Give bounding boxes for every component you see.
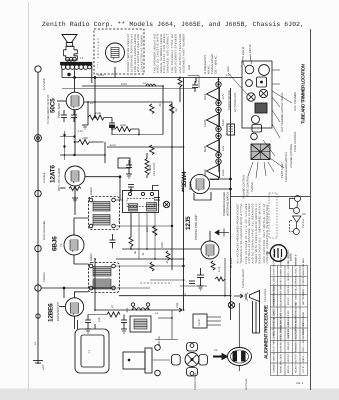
svg-text:FIG. 2: FIG. 2 (296, 382, 304, 385)
wire grid x64 bus (64, 131, 66, 160)
wire riser x139 (138, 213, 140, 260)
voice coil (66, 57, 77, 61)
output transformer T3 core (61, 62, 92, 65)
svg-text:PHONO: PHONO (43, 272, 46, 282)
phono jack box (227, 124, 235, 135)
svg-text:1 MEG: 1 MEG (149, 165, 152, 173)
lead GRN leader (228, 73, 247, 94)
trimmer leader lines (263, 70, 292, 168)
resistor R6 osc grid (107, 312, 120, 317)
ground G3 (85, 327, 91, 333)
svg-text:CONVERTER: CONVERTER (56, 301, 60, 321)
svg-text:VOLUME CONTROL: VOLUME CONTROL (290, 143, 293, 168)
output transformer location (255, 103, 267, 113)
oscillator coil L4 (131, 303, 149, 310)
tube 35W4 V5 rectifier (190, 174, 209, 193)
filament 6BJ6 (207, 133, 222, 157)
wire x172 bus (171, 102, 173, 270)
svg-text:2.1: 2.1 (90, 102, 94, 105)
resistor R16 (166, 251, 170, 260)
terminal E3 (35, 190, 41, 196)
socket 12BE6 location (252, 116, 260, 124)
resistor R15 cathode (69, 187, 81, 191)
pilot lamp location (251, 125, 262, 140)
wire 12J5 bottom row (119, 295, 231, 297)
35W4 socket loop (194, 192, 211, 200)
svg-text:0.17: 0.17 (226, 74, 231, 77)
svg-text:RADIO DIAL AT: RADIO DIAL AT (287, 314, 290, 339)
svg-text:PILOT LIGHT: PILOT LIGHT (281, 162, 284, 178)
wire 50C5 grid row (57, 101, 172, 102)
svg-text:.01: .01 (142, 252, 145, 256)
oscillator row (95, 308, 182, 312)
wire T2 secondary stub (115, 225, 173, 227)
wire IF agc row (116, 258, 184, 260)
page bottom edge (0, 389, 339, 400)
capacitor C16 line bypass (61, 110, 67, 122)
antenna ANT (33, 357, 43, 364)
capacitor C3 (126, 160, 132, 172)
speaker LS1 (62, 35, 77, 47)
terminal E5 (36, 314, 40, 318)
wire IF B+ row (122, 248, 201, 250)
capacitor C19 (110, 234, 116, 249)
wire T1 primary stub (115, 265, 184, 267)
svg-text:12J5: 12J5 (185, 216, 192, 230)
wire B+ corner stub (195, 78, 197, 83)
wire osc out (155, 310, 178, 340)
svg-text:TUBE AND TRIMMER LOCATION: TUBE AND TRIMMER LOCATION (301, 63, 306, 124)
wire 12AT6 grid stub (60, 187, 66, 189)
svg-text:455KC: 455KC (90, 187, 93, 195)
wire 6BJ6 plate riser (74, 218, 89, 235)
svg-text:I.F.: I.F. (59, 243, 63, 247)
cable to AC plug (213, 354, 228, 360)
tube 12J5 V6 phono preamp (201, 241, 219, 259)
left terminal labels (43, 78, 50, 282)
svg-text:B+ 105V: B+ 105V (230, 258, 233, 268)
tube 12AT6 V3 det-1st audio (65, 166, 85, 186)
svg-text:PHONO PRE-AMP: PHONO PRE-AMP (194, 214, 198, 240)
wire 50C5 plate to T3 (62, 69, 75, 92)
wire T2 primary stub (115, 199, 122, 201)
svg-text:BRN W: BRN W (249, 44, 252, 53)
wire 50C5 cathode (74, 110, 76, 155)
svg-text:535 — 1605 KC: 535 — 1605 KC (215, 55, 218, 74)
svg-text:12AT6: 12AT6 (204, 119, 207, 127)
svg-text:A7A BLK: A7A BLK (43, 172, 46, 183)
svg-text:6.3V: 6.3V (222, 145, 225, 151)
svg-text:VOL CONT: VOL CONT (153, 162, 156, 176)
lead color labels (227, 44, 252, 72)
svg-text:150K: 150K (95, 112, 101, 115)
resistor R14 (170, 104, 175, 113)
svg-text:GEN FREQUENCY KC: GEN FREQUENCY KC (280, 313, 283, 339)
svg-text:TUNING: TUNING (251, 182, 254, 192)
wire 35W4 plate row (210, 178, 232, 180)
svg-text:VOLUME CONTROL: VOLUME CONTROL (243, 174, 246, 199)
wire right top row (188, 75, 199, 88)
svg-text:GRN: GRN (227, 66, 230, 72)
wire 12AT6 plate feed (60, 136, 75, 138)
lead BLU leader (243, 56, 246, 68)
wire x183 bus (183, 78, 185, 311)
resistor R12 (178, 78, 182, 89)
svg-text:RECT.: RECT. (189, 181, 193, 190)
filter choke L6 (146, 84, 156, 86)
svg-text:NO-47: NO-47 (198, 318, 201, 326)
svg-text:P3: P3 (214, 349, 218, 352)
note phono leads (223, 192, 230, 216)
terminal E6 phono (35, 285, 41, 291)
trimmer A location (247, 93, 255, 101)
voltage labels (77, 74, 248, 390)
svg-text:CONVERTER GRID PIN 7 DUMMY LOO: CONVERTER GRID PIN 7 DUMMY LOOP ANT (280, 256, 283, 305)
wire riser x131 (130, 213, 132, 238)
tuning gang pictorial (245, 291, 260, 334)
resistor R9 12J5 grid (215, 277, 225, 281)
phono motor pictorial (123, 345, 170, 376)
svg-text:SET GANG FULLY OPEN ADJ OSC TR: SET GANG FULLY OPEN ADJ OSC TRIMMER B (295, 254, 298, 305)
ground G4 (121, 327, 127, 333)
junction dots row (64, 77, 232, 319)
svg-text:AC INTERLOCK: AC INTERLOCK (234, 93, 237, 112)
oscillator coil L5 box (130, 316, 151, 332)
svg-text:PHONO MOTOR: PHONO MOTOR (228, 90, 231, 110)
wire phono row y280 (150, 279, 184, 281)
capacitor C5 (121, 315, 127, 328)
trimmer B location (259, 89, 267, 97)
loop antenna L1 (75, 320, 109, 373)
junction dot (94, 77, 96, 79)
svg-text:PWR. AMP.: PWR. AMP. (57, 102, 61, 118)
svg-text:.05: .05 (166, 260, 169, 264)
wire x139 drop (138, 129, 140, 134)
coupling box (118, 158, 130, 168)
note text block: alternate tube (97, 34, 144, 72)
svg-text:TONE CONTROL: TONE CONTROL (294, 131, 297, 152)
resistor R13 (88, 115, 112, 120)
alignment table cell text (273, 246, 306, 373)
svg-text:12.6V: 12.6V (222, 119, 225, 126)
capacitor C7 (189, 281, 195, 284)
wire B+ bus x95 (94, 78, 96, 118)
wire rectifier feed column (230, 88, 232, 320)
capacitor C4 (154, 198, 160, 201)
socket 12AT6 location (246, 80, 253, 87)
svg-text:TERMINALS TO CHASSIS WITH A VT: TERMINALS TO CHASSIS WITH A VTVM. (240, 203, 243, 263)
svg-text:ANT.: ANT. (42, 364, 45, 370)
dial pointer arrow (234, 294, 243, 298)
component value labels (82, 65, 233, 322)
svg-text:455KC: 455KC (90, 253, 93, 261)
svg-text:AC PLUG: AC PLUG (245, 379, 248, 390)
socket 35W4 location (259, 65, 270, 76)
wire 12AT6 cathode (74, 186, 76, 215)
wire converter top corner (153, 186, 159, 191)
wire riser x147 (146, 213, 148, 250)
heater chain labels (204, 90, 237, 177)
svg-text:Zenith Radio Corp. ** Models: Zenith Radio Corp. ** Models J664, J665E… (42, 21, 304, 28)
svg-text:4-7V RED: 4-7V RED (43, 78, 46, 90)
wire x225 drop (224, 258, 226, 296)
wave trap trimmer (228, 302, 234, 308)
phono switch symbol (215, 229, 229, 237)
svg-text:.002: .002 (126, 307, 129, 313)
wire converter grid stub (59, 288, 65, 307)
svg-text:47Ω: 47Ω (188, 65, 191, 70)
svg-text:50C5: 50C5 (50, 98, 57, 113)
output transformer T3 secondary (61, 65, 91, 69)
gang leader lines (248, 162, 274, 178)
capacitor C18 padder (128, 185, 134, 192)
socket 50C5 location (245, 65, 254, 74)
wire heater to rectifier (210, 178, 219, 180)
svg-text:.05: .05 (159, 103, 162, 107)
resistor R18 screen dropper (129, 237, 133, 248)
wire screen row (82, 85, 163, 87)
resistor R2 plate load (75, 140, 104, 145)
shielded phono lead (dashed) (140, 282, 172, 284)
note text block: service notes (153, 34, 185, 73)
svg-text:OPERATION SEQUENCE: OPERATION SEQUENCE (273, 309, 276, 339)
svg-text:**35W4: **35W4 (181, 171, 188, 192)
svg-text:220K: 220K (82, 137, 88, 140)
12AT6 socket detail (266, 245, 287, 262)
svg-text:BLU W: BLU W (242, 46, 245, 55)
svg-text:117V: 117V (110, 144, 116, 147)
resistor R4 (150, 104, 155, 113)
resistor R3 (150, 145, 155, 154)
svg-text:12AT6: 12AT6 (50, 165, 57, 183)
ground G5 (198, 284, 204, 290)
heater wiring detail sub-circuit (290, 196, 307, 235)
wire AVC row (60, 154, 105, 156)
IF transformer T1 can (89, 263, 120, 293)
svg-text:TONE CONTROL: TONE CONTROL (247, 175, 250, 196)
converter plate box (123, 191, 159, 213)
alignment table grid (271, 266, 308, 376)
wire 35C5 cathode drop (114, 67, 116, 78)
svg-text:DET.-1ST AUDIO: DET.-1ST AUDIO (57, 167, 61, 191)
wire 12BE6 plate riser (75, 292, 89, 298)
svg-text:6BJ6: 6BJ6 (204, 146, 207, 152)
filament 50C5 (207, 82, 222, 106)
wire 35W4 output row (210, 188, 232, 190)
svg-text:C1A GANG: C1A GANG (264, 289, 267, 302)
svg-text:600 KC — 1605 KC — 1400 KC — 6: 600 KC — 1605 KC — 1400 KC — 600 KC (287, 261, 290, 305)
trimmer callout labels (243, 92, 298, 199)
wire converter cathode (74, 316, 76, 329)
volume control R7 1 MEG (145, 153, 149, 178)
gang capacitor location (251, 144, 270, 160)
12J5 plate riser (209, 231, 211, 241)
IF transformer T2 can (89, 197, 120, 230)
antenna terminal bus wire (37, 72, 39, 357)
svg-text:6BJ6: 6BJ6 (52, 236, 59, 251)
svg-text:100V: 100V (121, 83, 127, 86)
svg-text:105V: 105V (98, 74, 104, 77)
svg-text:ANT. TRIMMER: ANT. TRIMMER (281, 113, 284, 132)
IF can T2 location (257, 77, 267, 87)
svg-text:RADIO POSITION. * MEASURED WIT: RADIO POSITION. * MEASURED WITH A (258, 203, 261, 263)
ground G1 (80, 125, 88, 129)
wire cathode bypass drop x88 (87, 102, 89, 125)
wire x95 lower bus (94, 259, 96, 310)
tube 6BJ6 V2 IF amplifier (64, 235, 84, 255)
svg-text:4.7K: 4.7K (218, 266, 221, 272)
svg-text:PIN 3,4: PIN 3,4 (302, 219, 305, 228)
wire osc link row (88, 314, 107, 316)
note RF frequency (204, 54, 218, 74)
phono plug P1 pictorial (172, 343, 208, 377)
terminal E2 (35, 135, 42, 142)
svg-text:-1.1V: -1.1V (77, 130, 83, 133)
note voltages block (237, 203, 270, 263)
svg-text:OPERATION SIGNAL GEN TO ANT SE: OPERATION SIGNAL GEN TO ANT SECTION OF G… (273, 246, 276, 305)
tube 35C5 alternate socket (106, 43, 125, 62)
svg-text:MOTOR: MOTOR (158, 336, 161, 346)
filament 12BE6 (207, 159, 222, 178)
svg-text:ASSEMBLY PART NUMBER: ASSEMBLY PART NUMBER (183, 34, 186, 73)
resistor R17 phono grid (150, 262, 154, 271)
svg-text:ANT TRIMMER — C ROCK GANG FOR: ANT TRIMMER — C ROCK GANG FOR MAX (302, 258, 305, 305)
svg-text:ADJUST TRIMMERS: ADJUST TRIMMERS (295, 313, 298, 339)
lead BRN leader (250, 54, 252, 64)
resistor R1 470K (112, 127, 139, 132)
wire 12J5 mid row (180, 285, 207, 287)
wire heater top link (218, 78, 220, 82)
wire 6BJ6 grid riser (74, 255, 89, 264)
notes area rules (231, 196, 311, 198)
svg-text:100V: 100V (161, 242, 164, 248)
wire B+ plate row (62, 77, 242, 79)
svg-text:10K: 10K (98, 317, 101, 322)
resistor R5 22K (153, 226, 158, 235)
terminal E1 (35, 66, 41, 72)
svg-text:OUTPUT TRANS.: OUTPUT TRANS. (281, 92, 284, 113)
wire detector row (107, 146, 184, 148)
svg-text:TUNING SHAFT: TUNING SHAFT (242, 268, 245, 288)
svg-text:12BE6: 12BE6 (204, 169, 207, 177)
svg-text:50C5: 50C5 (204, 93, 207, 100)
svg-text:C1B: C1B (176, 303, 179, 308)
svg-text:4.7V: 4.7V (222, 93, 225, 99)
svg-text:22K: 22K (146, 227, 149, 232)
wire heater return row (62, 88, 196, 90)
capacitor C15 electrolytic (109, 118, 115, 136)
svg-text:TO MILLIWATT OUTPUT: TO MILLIWATT OUTPUT (47, 94, 50, 124)
AC plug P2 pictorial (228, 330, 252, 371)
svg-text:12BE6: 12BE6 (48, 303, 55, 322)
wire T3 right leg (91, 65, 93, 83)
tube 50C5 V4 power amp (66, 92, 84, 110)
wire T1 secondary stub (115, 287, 150, 289)
svg-text:CHANGED. USE CORRECT: CHANGED. USE CORRECT (167, 34, 170, 73)
svg-text:RCD CHANGER: RCD CHANGER (43, 221, 46, 240)
capacitor C6 (197, 268, 204, 284)
resistor R8 12J5 cathode (211, 261, 215, 270)
speaker magnet frame (64, 46, 78, 60)
wire x105 link (104, 142, 106, 163)
alternate-tube dashed note box (94, 29, 144, 74)
converter box dashed inner (127, 198, 155, 206)
svg-text:12.6V: 12.6V (222, 169, 225, 176)
svg-text:PHONO-RADIO SWITCH: PHONO-RADIO SWITCH (285, 152, 288, 182)
ground G6 (126, 172, 132, 178)
capacitor C8 (85, 315, 91, 328)
terminal E4 (35, 245, 41, 251)
alignment table header texts (273, 309, 306, 339)
tube 12BE6 V1 converter (65, 298, 83, 316)
svg-text:.02: .02 (175, 108, 178, 112)
heater string bus (218, 79, 220, 172)
wire y134 row (112, 134, 163, 136)
svg-text:ALIGNMENT PROCEDURE: ALIGNMENT PROCEDURE (264, 304, 270, 359)
wire AC riser (238, 303, 240, 330)
capacitor C14 (192, 81, 198, 92)
svg-text:470K: 470K (120, 124, 126, 127)
svg-text:CONNECTED AS SHOWN.: CONNECTED AS SHOWN. (141, 34, 144, 72)
trimmer C1T (163, 201, 169, 207)
svg-text:MOTOR AND SWITCH: MOTOR AND SWITCH (227, 192, 230, 216)
pilot lamp NO-47 terminal box (193, 314, 221, 328)
wire riser x155 (154, 213, 156, 260)
svg-text:REPLACEMENT SPEAKER: REPLACEMENT SPEAKER (175, 34, 178, 73)
wire 12AT6 out row (85, 176, 121, 200)
svg-text:OUTPUT METER: OUTPUT METER (302, 317, 305, 339)
filament 12AT6 (207, 107, 222, 131)
dashed callout box (269, 193, 277, 238)
svg-text:OSC. TRIMMER: OSC. TRIMMER (294, 92, 297, 111)
wire screen dropper (179, 89, 181, 103)
wire phono input row (41, 287, 115, 289)
svg-text:PHONO PLUG: PHONO PLUG (194, 373, 197, 390)
wire screen right row (195, 78, 197, 83)
wire x163 drop (162, 86, 164, 135)
chassis tube location plan (242, 61, 272, 128)
svg-text:I.F. 455 KC.: I.F. 455 KC. (287, 249, 290, 263)
ground G2 (72, 196, 78, 202)
capacitor C17 line bypass (71, 110, 77, 122)
